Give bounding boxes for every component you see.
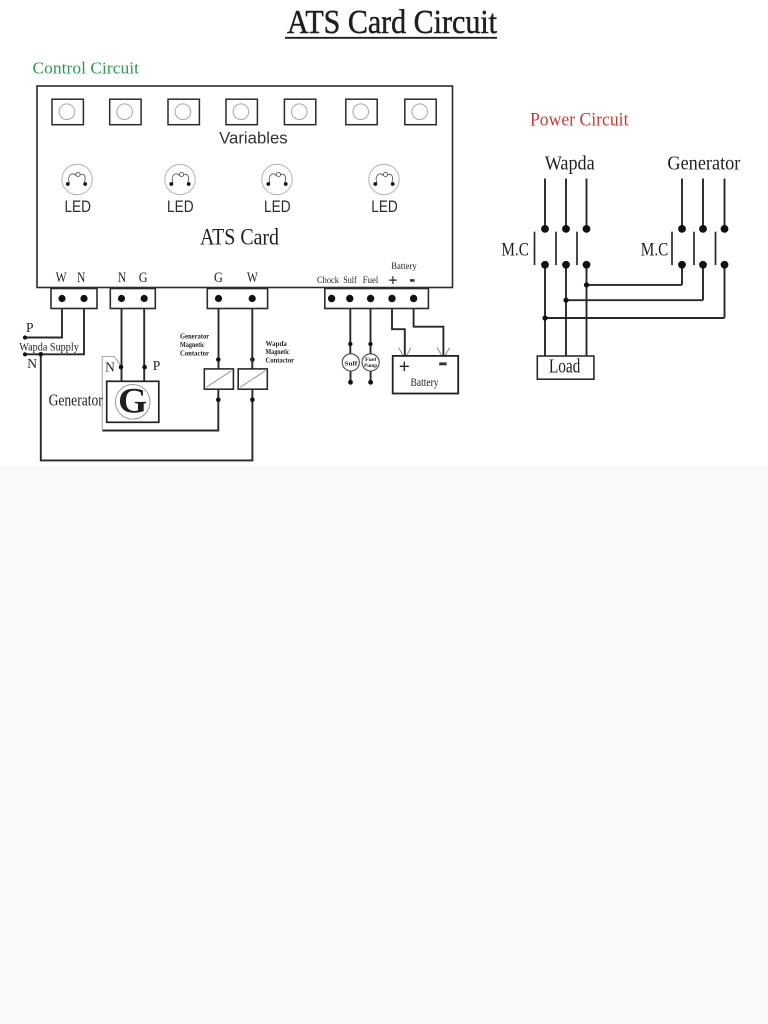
svg-text:P: P bbox=[26, 320, 34, 335]
svg-text:Pump: Pump bbox=[364, 363, 377, 369]
svg-text:Battery: Battery bbox=[411, 375, 439, 389]
svg-text:Sulf: Sulf bbox=[344, 360, 358, 367]
svg-text:Contactor: Contactor bbox=[180, 349, 210, 358]
svg-text:Generator: Generator bbox=[49, 391, 103, 410]
svg-text:N: N bbox=[77, 270, 86, 286]
svg-text:Wapda Supply: Wapda Supply bbox=[19, 340, 79, 354]
svg-text:Fuel: Fuel bbox=[363, 275, 379, 286]
svg-text:N: N bbox=[27, 356, 37, 371]
svg-text:M.C: M.C bbox=[501, 240, 529, 261]
svg-text:W: W bbox=[56, 270, 67, 286]
svg-text:Variables: Variables bbox=[219, 130, 288, 148]
svg-text:Contactor: Contactor bbox=[266, 355, 295, 364]
svg-text:Control Circuit: Control Circuit bbox=[33, 59, 140, 78]
svg-text:G: G bbox=[139, 270, 148, 286]
svg-text:M.C: M.C bbox=[641, 240, 669, 261]
svg-text:Generator: Generator bbox=[667, 154, 740, 175]
svg-text:Sulf: Sulf bbox=[343, 275, 357, 286]
svg-text:LED: LED bbox=[264, 197, 291, 216]
svg-text:Load: Load bbox=[549, 356, 581, 378]
svg-text:LED: LED bbox=[167, 197, 194, 216]
svg-text:ATS Card: ATS Card bbox=[200, 225, 279, 250]
svg-text:LED: LED bbox=[371, 197, 398, 216]
svg-text:P: P bbox=[153, 358, 161, 373]
svg-text:G: G bbox=[214, 270, 223, 286]
svg-text:+: + bbox=[399, 357, 410, 378]
svg-text:LED: LED bbox=[64, 197, 91, 216]
svg-text:N: N bbox=[118, 270, 127, 286]
svg-text:G: G bbox=[118, 381, 147, 421]
svg-text:N: N bbox=[105, 360, 115, 375]
svg-text:+: + bbox=[388, 271, 397, 290]
svg-text:Power Circuit: Power Circuit bbox=[530, 110, 629, 131]
svg-text:W: W bbox=[247, 270, 258, 286]
svg-text:Chock: Chock bbox=[317, 275, 339, 286]
svg-text:ATS Card Circuit: ATS Card Circuit bbox=[287, 4, 497, 41]
svg-text:Wapda: Wapda bbox=[545, 154, 595, 175]
